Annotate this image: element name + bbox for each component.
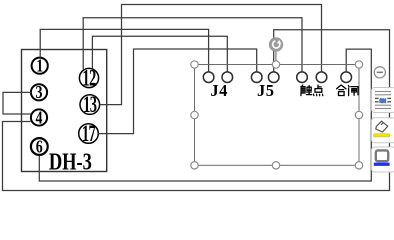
handle bottom-right	[355, 162, 362, 169]
char he	[337, 85, 346, 96]
svg-text:13: 13	[83, 93, 96, 118]
terminal chudian-f	[316, 72, 327, 83]
toolbar button layout-options	[372, 88, 394, 113]
rotation handle stem	[275, 51, 277, 64]
char dian	[314, 85, 323, 96]
wire terminal1 to J4-a	[40, 29, 208, 71]
svg-text:J4: J4	[210, 81, 228, 100]
terminal chudian-e	[297, 72, 308, 83]
svg-text:4: 4	[36, 109, 43, 128]
label chudian (touch point)	[301, 85, 323, 96]
svg-text:DH-3: DH-3	[49, 148, 92, 175]
rotation handle	[269, 37, 283, 51]
wire terminal3 to terminal4 link	[3, 92, 31, 114]
wire terminal17 to J5-c	[98, 49, 256, 134]
wire terminal13 to chudian-f	[100, 5, 322, 105]
svg-text:3: 3	[36, 84, 43, 103]
terminal 4	[31, 109, 47, 128]
svg-text:1: 1	[36, 57, 43, 76]
svg-text:12: 12	[82, 66, 95, 91]
handle bottom-mid	[272, 162, 279, 169]
handle top-mid	[272, 61, 279, 68]
handle top-right	[355, 61, 362, 68]
handle mid-left	[191, 111, 198, 118]
terminal J5-d	[268, 72, 279, 83]
wire terminal12 to chudian-e	[83, 18, 302, 72]
terminal 13	[80, 93, 100, 118]
terminal J4-a	[203, 72, 214, 83]
minimize button	[374, 67, 385, 78]
terminal 1	[32, 57, 48, 76]
relay box DH-3	[22, 50, 107, 172]
wire terminal4 to J5-d outer loop	[3, 30, 390, 191]
terminal hezha-g	[341, 72, 352, 83]
terminal 6	[31, 138, 48, 157]
label J4	[210, 81, 228, 100]
terminal 17	[79, 122, 99, 147]
label DH-3	[49, 148, 92, 175]
terminal J4-b	[222, 72, 233, 83]
svg-text:17: 17	[82, 122, 96, 147]
selection rectangle (grey)	[195, 65, 360, 166]
label J5	[257, 81, 275, 100]
label hezha (close switch)	[337, 85, 358, 96]
svg-text:6: 6	[36, 138, 43, 157]
handle mid-right	[355, 111, 362, 118]
handle top-left	[191, 61, 198, 68]
terminal J5-c	[251, 72, 262, 83]
terminal 12	[79, 66, 98, 91]
toolbar button fill-color	[372, 118, 394, 143]
wire terminal12 to J4-b	[92, 36, 227, 72]
svg-text:J5: J5	[257, 81, 275, 100]
handle bottom-left	[191, 162, 198, 169]
terminal 3	[31, 84, 47, 103]
char chu	[301, 85, 312, 96]
wire terminal6 to hezha-g	[39, 49, 371, 181]
char zha	[348, 86, 358, 96]
toolbar button outline-color	[372, 147, 394, 172]
